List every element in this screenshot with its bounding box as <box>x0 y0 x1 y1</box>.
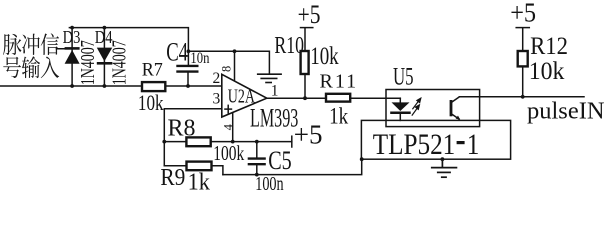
junction D4 input line <box>103 84 107 88</box>
op-amp U2A <box>222 74 267 117</box>
junction C5 top stub <box>255 140 259 144</box>
optocoupler U5 outer box TLP521-1 <box>361 120 510 159</box>
LED light arrows <box>412 98 421 115</box>
svg-text:1k: 1k <box>188 169 211 196</box>
junction U5 ground stub <box>441 157 445 161</box>
ground (op-amp) <box>257 74 282 82</box>
wire D4 column <box>103 28 105 86</box>
svg-text:+5: +5 <box>510 0 536 28</box>
resistor R12 <box>518 51 528 66</box>
label R11 <box>320 70 359 92</box>
svg-text:+5: +5 <box>294 119 323 149</box>
power tick +5 (R12) <box>516 27 529 29</box>
label D4 <box>95 29 113 47</box>
svg-text:10k: 10k <box>138 91 164 116</box>
junction R8 left / pin3 net <box>162 140 166 144</box>
wire LED anode stub <box>399 98 401 102</box>
label TLP521-1 last digit <box>467 127 480 161</box>
label R10 <box>274 31 304 58</box>
label 10k R12 <box>529 57 565 85</box>
svg-text:R12: R12 <box>530 33 568 60</box>
wire R8 row <box>164 141 186 143</box>
svg-text:+5: +5 <box>298 1 321 30</box>
svg-text:4: 4 <box>221 123 235 130</box>
label D3 <box>63 29 81 47</box>
wire R7 to op-amp pin2 <box>165 85 225 87</box>
wire C5 stubs <box>256 142 258 158</box>
svg-text:10k: 10k <box>529 57 565 85</box>
wire pin4 riser <box>232 113 234 142</box>
resistor R10 <box>301 51 309 74</box>
junction C4 bottom stub <box>186 84 190 88</box>
svg-text:TLP521: TLP521 <box>373 127 456 161</box>
svg-text:C4: C4 <box>166 38 188 67</box>
svg-text:1N4007: 1N4007 <box>77 40 99 85</box>
svg-text:R8: R8 <box>168 115 196 141</box>
junction U5 box bottom-left <box>360 157 364 161</box>
label TLP521-1 <box>373 127 456 161</box>
svg-text:LM393: LM393 <box>250 103 298 132</box>
svg-text:10k: 10k <box>310 41 339 69</box>
label U5 <box>393 62 414 90</box>
svg-text:100k: 100k <box>213 142 244 166</box>
label C4 <box>166 38 188 67</box>
label R7 <box>142 59 163 81</box>
junction R12 pulseIN node <box>521 95 525 99</box>
label U2A <box>228 85 256 107</box>
diode D4 <box>97 48 113 64</box>
junction D3 top rail <box>70 26 74 30</box>
wire op-amp output row <box>267 97 326 99</box>
svg-text:1: 1 <box>271 83 279 100</box>
label 1k R11 <box>329 102 348 128</box>
power tick +5 (R10) <box>301 27 313 29</box>
label 10n <box>190 50 209 67</box>
svg-text:pulseIN: pulseIN <box>527 97 605 124</box>
svg-text:3: 3 <box>213 91 221 108</box>
junction R10 output node <box>303 96 307 100</box>
wire R9 leads <box>164 165 186 167</box>
svg-text:C5: C5 <box>268 146 291 175</box>
svg-text:1: 1 <box>467 127 480 161</box>
svg-text:1N4007: 1N4007 <box>108 40 130 85</box>
label LM393 <box>250 103 298 132</box>
resistor R8 <box>186 137 210 146</box>
svg-text:10n: 10n <box>190 50 209 67</box>
optocoupler U5 inner box <box>386 90 480 127</box>
svg-text:1k: 1k <box>329 102 348 128</box>
power tick +5 (R8 row) <box>291 136 293 147</box>
resistor R9 <box>187 162 212 171</box>
svg-text:R7: R7 <box>142 59 163 81</box>
label +5 (R12) <box>510 0 536 28</box>
svg-text:R11: R11 <box>320 70 359 92</box>
label 100k <box>213 142 244 166</box>
capacitor C4 <box>176 66 198 72</box>
label 100n <box>255 173 284 195</box>
wire C4 bottom stub <box>187 73 189 86</box>
junction pin8 riser <box>233 49 237 53</box>
junction D4 top rail <box>103 26 107 30</box>
svg-text:8: 8 <box>220 66 234 72</box>
input label text 脉冲信号输入 <box>3 33 59 78</box>
op-amp plus symbol <box>224 105 232 114</box>
wire main input line <box>0 85 142 87</box>
wire label leader to D3 <box>57 48 73 50</box>
label 10k R10 <box>310 41 339 69</box>
svg-text:U5: U5 <box>393 62 414 90</box>
wire pin8 riser <box>234 51 236 80</box>
resistor R7 <box>142 82 165 91</box>
label C5 <box>268 146 291 175</box>
label TLP521-1 dash <box>457 141 465 144</box>
svg-text:R9: R9 <box>160 164 185 190</box>
wire pin3 <box>164 109 222 166</box>
resistor R11 <box>326 94 350 102</box>
wire bottom rail <box>223 159 362 174</box>
label R9 <box>160 164 185 190</box>
LED inside U5 <box>390 102 411 112</box>
label R12 <box>530 33 568 60</box>
junction C4 top / ground net <box>187 49 191 53</box>
diode D3 <box>65 48 80 63</box>
label +5 (R10) <box>298 1 321 30</box>
label R8 <box>168 115 196 141</box>
svg-text:R10: R10 <box>274 31 304 58</box>
wire R12 column <box>522 28 524 51</box>
wire phototransistor collector to pulseIN <box>460 96 585 98</box>
label +5 (R8 row) <box>294 119 323 149</box>
wire LED cathode stub <box>399 114 401 121</box>
capacitor C5 <box>248 159 266 165</box>
ground (optocoupler) <box>431 159 457 177</box>
junction C5 bottom rail <box>255 173 259 177</box>
phototransistor inside U5 <box>451 97 460 120</box>
wire R11 to LED <box>350 97 400 99</box>
wire top rail <box>69 28 188 65</box>
wire D3 column <box>71 28 73 86</box>
svg-text:100n: 100n <box>255 173 284 195</box>
wire pin8 ground net <box>188 51 269 73</box>
junction pin4 riser <box>231 140 235 144</box>
junction D3 input line <box>70 84 74 88</box>
label 1k R9 <box>188 169 211 196</box>
wire R10 column <box>304 28 306 51</box>
label 10k R7 <box>138 91 164 116</box>
